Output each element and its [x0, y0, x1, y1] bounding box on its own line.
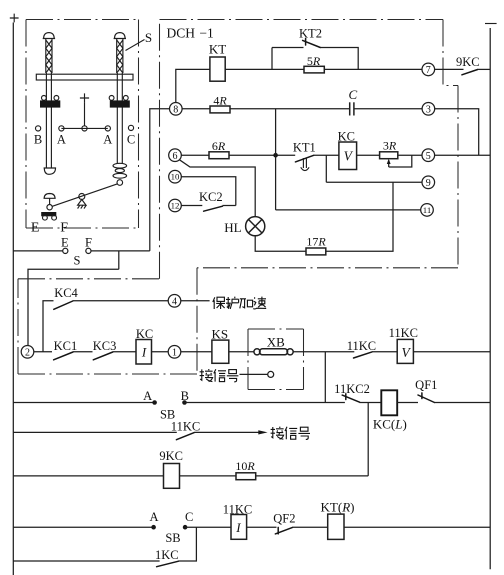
- node 11 terminal: [421, 204, 434, 217]
- relay coil KC (V): [338, 129, 357, 169]
- resistor 10R: [235, 459, 255, 480]
- node A right: [103, 126, 112, 147]
- node 5 terminal: [422, 149, 435, 162]
- wire: KC4 to node 4: [73, 300, 168, 302]
- wire: riser from 4R row down to node 11 row: [275, 109, 277, 210]
- wire: KS to XB: [229, 351, 254, 353]
- contact KC3: [93, 339, 117, 360]
- node center: [82, 126, 87, 131]
- label DCH-1: [167, 26, 214, 41]
- bellows stack on right tower: [113, 163, 127, 185]
- svg-text:C: C: [127, 133, 135, 147]
- wire: node 8 to 4R: [182, 108, 210, 110]
- wire: 17R up to node 9 row: [326, 182, 393, 251]
- contact KC1: [54, 339, 78, 360]
- svg-text:4R: 4R: [213, 93, 227, 107]
- crossbar between towers: [36, 74, 133, 80]
- wire: branch from KT1 row down to node 9 row: [325, 155, 327, 182]
- svg-text:A: A: [149, 510, 158, 524]
- svg-text:C: C: [185, 510, 193, 524]
- wire: left positive bus: [12, 23, 14, 575]
- DCH-1 enclosure (dash-dot polygon): [18, 20, 458, 375]
- wire: coil to negative bus: [413, 351, 490, 353]
- contact KT2 (normally closed): [299, 27, 322, 48]
- svg-text:KT1: KT1: [293, 140, 316, 154]
- relay coil 9KC: [159, 449, 183, 489]
- svg-text:6: 6: [173, 151, 178, 162]
- wire: node 7 to 9KC: [435, 68, 464, 70]
- capacitor C: [348, 87, 357, 116]
- node B (SB): [181, 389, 189, 405]
- node 8 terminal: [170, 103, 183, 116]
- svg-text:KS: KS: [211, 326, 228, 341]
- svg-text:KC: KC: [338, 129, 355, 143]
- resistor 6R: [209, 139, 229, 159]
- wire: node 1 to KS: [181, 351, 212, 353]
- svg-text:2: 2: [25, 348, 30, 359]
- wire: 10R to riser: [256, 475, 369, 477]
- wire: node 5 to negative bus: [435, 154, 491, 156]
- wire: node 10 to KC2 drop: [181, 177, 236, 206]
- label SB bottom: [165, 531, 180, 545]
- wire: 6R to KT1: [229, 154, 295, 156]
- node A left: [57, 126, 66, 147]
- svg-text:11KC: 11KC: [171, 420, 200, 434]
- svg-text:7: 7: [426, 65, 431, 76]
- wire: KC to 3R: [357, 154, 380, 156]
- svg-text:KC(L): KC(L): [373, 416, 407, 431]
- contact 11KC2 (normally closed): [334, 382, 370, 402]
- wire: KC1 to KC3: [73, 351, 93, 353]
- svg-text:I: I: [141, 345, 147, 360]
- contact row line A-A: [61, 127, 107, 129]
- node A (SB): [143, 389, 157, 405]
- wire: 11KC coil to QF2: [247, 526, 277, 528]
- drive link rod: [52, 184, 117, 206]
- resistor 5R: [304, 54, 324, 73]
- svg-text:S: S: [145, 30, 152, 45]
- node 3 terminal: [422, 103, 435, 116]
- svg-text:10R: 10R: [235, 459, 255, 473]
- contact KC4: [54, 286, 79, 310]
- contact QF1: [415, 378, 437, 403]
- wire: 4R to capacitor C: [230, 108, 350, 110]
- node A (SB bottom): [149, 510, 158, 530]
- wire: KT2 branch right: [320, 48, 358, 70]
- wire: 1KC riser to row4: [179, 527, 197, 561]
- wire: node 2 to KC4 riser: [34, 351, 52, 353]
- wire: XB to 11KC contact: [293, 351, 354, 353]
- svg-text:12: 12: [171, 201, 180, 211]
- wire: second S row: [28, 269, 119, 345]
- wire: KT2 branch left: [272, 47, 304, 49]
- node 10 terminal: [169, 170, 182, 183]
- relay coil 11KC (I): [223, 502, 252, 539]
- clamp left (contact jaws): [40, 96, 60, 108]
- operating lever dome: [44, 194, 56, 199]
- wire: KT(R) to negative bus: [344, 526, 490, 528]
- wire: KC(L) to QF1: [397, 402, 418, 404]
- svg-text:9KC: 9KC: [456, 55, 480, 69]
- node C: [127, 125, 135, 146]
- positive bus polarity mark +: [10, 14, 19, 23]
- label jie xin hao (signal) row2: [271, 427, 310, 440]
- node 4 terminal: [168, 295, 181, 308]
- potentiometer 3R: [380, 138, 412, 167]
- svg-text:3: 3: [426, 105, 431, 116]
- svg-text:I: I: [235, 520, 241, 535]
- resistor 4R: [210, 93, 230, 113]
- wire: 5R to node 7: [324, 68, 422, 70]
- svg-text:SB: SB: [165, 531, 180, 545]
- wire: 11KC to arrow: [194, 431, 259, 433]
- negative bus polarity mark -: [485, 23, 497, 25]
- svg-text:C: C: [348, 87, 357, 102]
- svg-text:HL: HL: [224, 220, 241, 235]
- wire: B to 11KC2: [185, 402, 345, 404]
- resistor 17R: [306, 235, 326, 255]
- wire: riser XB row to pushbutton row: [324, 352, 326, 403]
- wire: 11KC2 to KC(L): [359, 402, 381, 404]
- arrow head to signal: [258, 430, 267, 434]
- insulator column left (lattice tower): [43, 33, 56, 175]
- svg-text:F: F: [60, 221, 68, 236]
- svg-text:11: 11: [423, 205, 431, 215]
- svg-text:B: B: [34, 133, 42, 147]
- svg-text:3R: 3R: [383, 138, 397, 152]
- knife switch S contacts E F below box: [61, 236, 92, 268]
- junction dot: [273, 153, 278, 158]
- svg-text:9KC: 9KC: [159, 449, 183, 463]
- svg-text:F: F: [85, 236, 92, 250]
- node 1 terminal: [168, 346, 181, 359]
- svg-text:KC: KC: [136, 327, 153, 341]
- center post cross: [80, 93, 89, 102]
- wire: KT to parallel loop: [225, 68, 304, 70]
- wire: KC2 to drop join: [223, 205, 236, 207]
- svg-text:A: A: [57, 133, 66, 147]
- wire: KC coil to node 1: [152, 351, 169, 353]
- wire: T branch down to second S row: [118, 251, 120, 269]
- node 6 terminal: [169, 149, 182, 162]
- svg-text:8: 8: [173, 105, 178, 116]
- contact KC2: [199, 190, 223, 211]
- svg-text:4: 4: [172, 297, 177, 308]
- contact KT1 (time delay): [293, 140, 316, 170]
- connecting strip XB (dash-dot box): [248, 329, 304, 390]
- contact 1KC: [155, 548, 179, 567]
- svg-text:KC3: KC3: [93, 339, 117, 353]
- svg-text:E: E: [61, 236, 69, 250]
- svg-text:V: V: [401, 345, 411, 360]
- center post stem: [84, 103, 86, 126]
- wire: KC4 riser and stub: [43, 301, 54, 352]
- wire: QF1 to negative bus: [435, 402, 491, 404]
- wire: row1 bus to A: [13, 402, 152, 404]
- node 2 terminal: [21, 346, 34, 359]
- svg-text:KC2: KC2: [199, 190, 223, 204]
- contact 11KC (signal row): [171, 420, 200, 440]
- wire: node 6 to 6R: [181, 154, 209, 156]
- svg-text:KC1: KC1: [54, 339, 78, 353]
- signal lamp HL: [224, 217, 265, 236]
- svg-text:E: E: [31, 221, 40, 236]
- node 12 terminal: [169, 199, 182, 212]
- relay coil KT(R): [321, 499, 355, 539]
- svg-text:B: B: [181, 389, 189, 403]
- wire: 9KC to 10R: [180, 475, 237, 477]
- svg-text:KC4: KC4: [54, 286, 78, 300]
- contact 11KC: [347, 339, 376, 358]
- wire: C to 11KC coil: [185, 526, 231, 528]
- svg-text:11KC2: 11KC2: [334, 382, 370, 396]
- svg-text:6R: 6R: [212, 139, 226, 153]
- contact 9KC: [456, 55, 480, 75]
- label SB: [160, 407, 175, 421]
- svg-text:V: V: [344, 149, 354, 164]
- wire: row3 bus to 9KC coil: [13, 475, 163, 477]
- wire: right negative bus: [489, 28, 491, 569]
- clamp right (contact jaws): [109, 96, 130, 108]
- relay coil 11KC (V): [389, 326, 418, 363]
- wire: row2 bus to 11KC: [13, 431, 177, 433]
- insulator column right (lattice tower): [114, 33, 126, 164]
- svg-text:KT: KT: [209, 42, 226, 57]
- wire: node 6 diagonal to lamp feed: [180, 160, 256, 217]
- wire: KT1 to KC coil: [314, 154, 339, 156]
- svg-text:17R: 17R: [306, 235, 326, 249]
- relay coil KT: [209, 42, 226, 82]
- wire: KC3 to KC coil: [113, 351, 136, 353]
- label baohu jiasu (protection acceleration): [213, 297, 266, 309]
- contact QF2: [273, 511, 295, 534]
- wire: bus to E: [13, 250, 62, 252]
- node 7 terminal: [422, 63, 435, 76]
- svg-text:11KC: 11KC: [389, 326, 418, 340]
- svg-text:1: 1: [172, 348, 177, 359]
- relay coil KC(L): [373, 390, 407, 431]
- svg-text:5: 5: [426, 151, 431, 162]
- wire: row5 bus to 1KC: [13, 560, 159, 562]
- wire: row4 bus to A: [13, 526, 151, 528]
- svg-text:9: 9: [426, 178, 431, 189]
- relay coil KC (I): [136, 327, 153, 364]
- switch S enclosure (dash-dot box): [26, 20, 139, 229]
- wire: F to riser corner: [91, 250, 150, 252]
- wire: 3R to node 5: [398, 154, 422, 156]
- svg-text:S: S: [74, 254, 81, 268]
- svg-text:KT2: KT2: [299, 27, 322, 41]
- wire: node 3 to node-5 row corner: [435, 109, 479, 155]
- node B: [34, 126, 42, 147]
- pivot fulcrum: [78, 194, 87, 209]
- label jie xin hao (signal) with test terminal: [200, 369, 274, 382]
- wire: 9KC to negative bus: [478, 68, 491, 70]
- wire: node 9 row: [326, 181, 422, 183]
- wire: node 11 row: [276, 209, 421, 211]
- wire: node 8 up to KT row: [176, 69, 210, 102]
- svg-text:QF1: QF1: [415, 378, 437, 392]
- svg-text:10: 10: [171, 172, 180, 182]
- svg-text:1KC: 1KC: [155, 548, 179, 562]
- wire: node 4 label stub: [181, 300, 210, 302]
- node C (SB bottom): [183, 510, 194, 530]
- node 9 terminal: [422, 176, 435, 189]
- svg-text:KT(R): KT(R): [321, 499, 355, 514]
- wire: loop left vertical: [271, 48, 273, 70]
- wire: riser from S wire up to node 8 row: [150, 109, 170, 251]
- wire: lamp to 17R: [255, 236, 306, 252]
- wire: 11KC to coil: [372, 351, 397, 353]
- svg-text:A: A: [143, 389, 152, 403]
- relay KS: [211, 326, 228, 363]
- label S with leader line: [126, 30, 153, 51]
- wire: node 12 to KC2: [181, 205, 202, 207]
- wire: QF2 to KT(R): [293, 526, 328, 528]
- svg-text:DCH −1: DCH −1: [167, 26, 214, 41]
- contact base block E F: [31, 212, 68, 236]
- wire: riser row1 to 10R row: [367, 403, 369, 476]
- lever joint circle: [47, 205, 52, 210]
- svg-text:11KC: 11KC: [347, 339, 376, 353]
- lever stem: [49, 198, 51, 204]
- svg-text:QF2: QF2: [273, 511, 295, 525]
- svg-text:A: A: [103, 133, 112, 147]
- wire: C to node 3: [354, 108, 422, 110]
- svg-text:XB: XB: [267, 334, 285, 349]
